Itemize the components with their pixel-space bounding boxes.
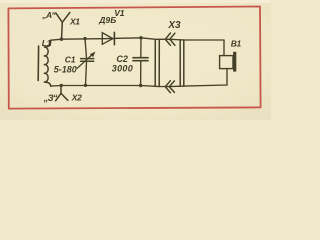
- X3 top chevrons: [165, 33, 175, 45]
- inductor L1 coil: [44, 40, 51, 86]
- earphone B1: top lead: [223, 40, 225, 56]
- wire: bottom rail from coil corner to B1 corner: [51, 85, 227, 87]
- capacitor C2 branch: [140, 38, 142, 57]
- capacitor C1 (variable) branch: [85, 39, 87, 59]
- svg-text:5-180: 5-180: [54, 65, 77, 75]
- earphone B1: membrane bar: [233, 52, 236, 72]
- svg-text:3000: 3000: [112, 63, 133, 73]
- diode V1: [102, 33, 113, 45]
- connector X3 right bracket: [179, 40, 181, 86]
- node: C2 top junction: [139, 36, 142, 39]
- svg-text:B1: B1: [231, 39, 242, 49]
- svg-text:„З“: „З“: [43, 93, 58, 103]
- svg-text:X3: X3: [167, 20, 181, 31]
- node: X2 junction: [60, 84, 63, 87]
- svg-text:L1: L1: [42, 38, 52, 48]
- connector X3 left bracket: [154, 40, 156, 87]
- node: antenna junction: [60, 38, 63, 41]
- svg-text:Д9Б: Д9Б: [98, 15, 116, 25]
- antenna X1 symbol: [56, 13, 70, 40]
- X3 bottom chevrons: [165, 81, 174, 93]
- svg-text:„А“: „А“: [41, 10, 56, 20]
- wire: top rail from coil corner to B1 corner: [51, 38, 224, 40]
- svg-text:C1: C1: [65, 54, 76, 64]
- L1 core line: [37, 46, 39, 81]
- node: C1 top junction: [83, 37, 86, 40]
- node: C2 bottom junction: [139, 84, 142, 87]
- earphone B1: bottom lead: [226, 69, 228, 85]
- node: C1 bottom junction: [84, 84, 87, 87]
- svg-text:X2: X2: [71, 92, 82, 102]
- ground X2 symbol: [56, 86, 68, 101]
- earphone B1: case square: [220, 56, 233, 69]
- C1 arrow head: [90, 52, 96, 58]
- C1 variable arrow: [77, 53, 93, 68]
- svg-text:X1: X1: [69, 17, 80, 27]
